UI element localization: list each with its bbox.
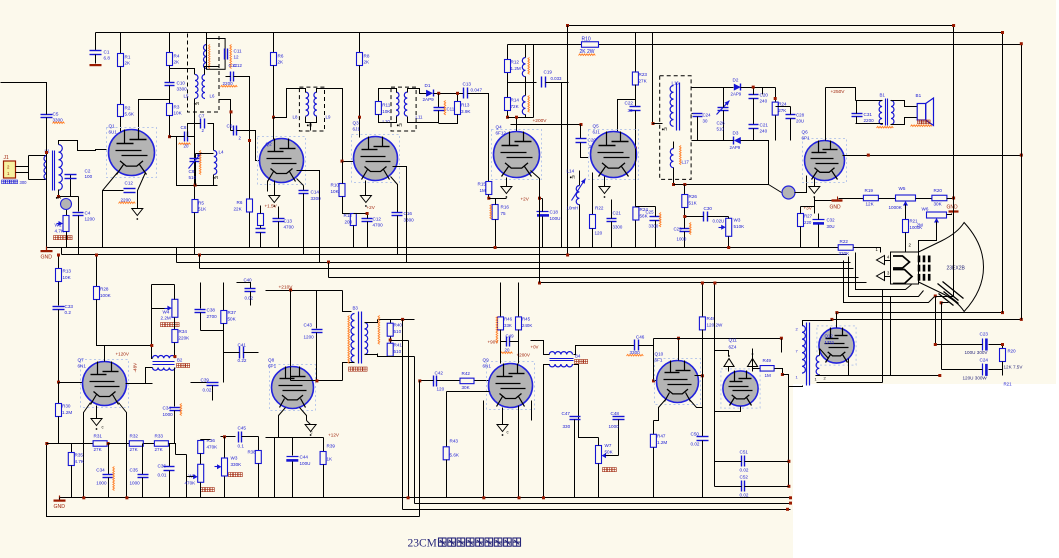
svg-text:Q12: Q12 — [825, 334, 834, 339]
svg-text:72K: 72K — [511, 104, 520, 109]
svg-text:B3: B3 — [353, 306, 359, 311]
svg-text:2.2M: 2.2M — [161, 316, 171, 321]
tube Q4 6F12 — [492, 130, 542, 180]
wire Q9 right leg — [518, 406, 520, 498]
wire C20 junction — [753, 88, 755, 95]
junction Q7 grid — [57, 381, 60, 384]
svg-text:R2: R2 — [125, 106, 131, 111]
svg-text:3300: 3300 — [177, 87, 188, 92]
svg-text:510: 510 — [189, 175, 197, 180]
svg-text:2700: 2700 — [207, 314, 218, 319]
wire box feed — [653, 123, 663, 125]
svg-text:C19: C19 — [544, 70, 553, 75]
svg-text:100U: 100U — [300, 461, 311, 466]
tube Q5 6J1 — [589, 130, 639, 180]
resistor R31 27K — [93, 441, 107, 447]
ground arrow Q5 cathode — [599, 187, 610, 194]
deflection yoke strokes — [938, 284, 959, 301]
svg-text:0.02: 0.02 — [691, 442, 700, 447]
svg-text:1K: 1K — [327, 457, 334, 462]
svg-text:●R: ●R — [397, 123, 403, 128]
wire Q10 right — [695, 375, 703, 377]
resistor R20b bleeder — [1000, 349, 1006, 362]
svg-text:C12: C12 — [373, 217, 382, 222]
capacitor C44 100U — [292, 438, 294, 456]
resistor R21 1000K — [905, 205, 907, 220]
svg-text:L17: L17 — [682, 160, 690, 165]
svg-text:0.22: 0.22 — [238, 358, 247, 363]
svg-text:0.02: 0.02 — [203, 388, 212, 393]
svg-text:GND: GND — [54, 504, 66, 510]
svg-text:6F1: 6F1 — [655, 358, 663, 363]
svg-text:L11: L11 — [416, 115, 424, 120]
svg-text:6Z4: 6Z4 — [729, 345, 737, 350]
svg-text:C21: C21 — [613, 211, 622, 216]
svg-text:R4: R4 — [174, 54, 180, 59]
wire R6 line down — [249, 141, 251, 199]
svg-text:C28: C28 — [796, 113, 805, 118]
capacitor C36 0.01 — [169, 444, 171, 467]
wire L11 to D1 — [408, 89, 427, 94]
svg-text:C32: C32 — [827, 218, 836, 223]
wire mid bus L4 — [198, 254, 201, 257]
svg-text:C49: C49 — [506, 334, 515, 339]
wire R49 out — [783, 375, 789, 387]
svg-text:C51: C51 — [740, 450, 749, 455]
wire Q1 cathode right leg — [138, 173, 146, 209]
wavy marks B3 — [378, 316, 380, 345]
wire Q8 plate row — [291, 380, 343, 382]
potentiometer W1 — [66, 210, 68, 216]
svg-text:C2: C2 — [85, 169, 91, 174]
capacitor C32 30U — [813, 219, 825, 221]
svg-text:C44: C44 — [300, 455, 309, 460]
potentiometer W3 510K — [726, 218, 732, 236]
diode D1 2AP9 — [426, 90, 433, 97]
svg-text:1.2M: 1.2M — [62, 410, 72, 415]
wire Q6 plate up — [825, 88, 827, 141]
wire top of R36 — [201, 439, 211, 441]
svg-text:330: 330 — [563, 424, 571, 429]
wire Q4 grid down — [516, 118, 518, 132]
wire flyback line y319 — [832, 319, 1022, 321]
svg-text:10mH: 10mH — [567, 206, 579, 211]
svg-text:0.033: 0.033 — [551, 76, 563, 81]
potentiometer W3b 330K — [222, 458, 228, 476]
tube Q11 6Z4 — [721, 369, 760, 408]
capacitor C11 12 — [224, 49, 226, 60]
resistor R6 22K — [247, 199, 253, 212]
svg-text:W1: W1 — [55, 223, 62, 228]
wire Q7 grid row right — [126, 383, 153, 385]
svg-text:1.2M: 1.2M — [657, 440, 667, 445]
svg-text:R43: R43 — [450, 439, 459, 444]
inductor L9 — [314, 92, 317, 116]
svg-text:W3: W3 — [231, 456, 238, 461]
resistor R11 10K — [375, 102, 381, 115]
capacitor C15 cathode Q2 — [256, 228, 266, 230]
svg-text:330K: 330K — [231, 462, 243, 467]
wire V4 R43 line — [702, 283, 704, 317]
svg-text:2AP9: 2AP9 — [731, 92, 742, 97]
svg-text:R13: R13 — [461, 103, 470, 108]
svg-text:330K: 330K — [839, 251, 851, 256]
wire V10 — [561, 83, 563, 248]
resistor R40 510 — [390, 320, 392, 324]
svg-text:27K: 27K — [94, 447, 103, 452]
svg-text:C11: C11 — [234, 49, 243, 54]
wire T1 secondary bottom — [59, 190, 79, 197]
svg-text:20: 20 — [184, 144, 189, 149]
inductor L13 — [522, 96, 525, 115]
svg-text:+12V: +12V — [328, 433, 340, 438]
svg-text:Q2: Q2 — [266, 142, 273, 147]
svg-text:10K: 10K — [331, 189, 340, 194]
svg-text:5.6K: 5.6K — [125, 112, 135, 117]
resistor R27 220 — [798, 214, 804, 227]
svg-text:●R: ●R — [56, 195, 62, 200]
resistor R3 10K — [169, 86, 171, 104]
svg-text:0.02: 0.02 — [740, 493, 749, 498]
capacitor C6 2 coupling — [233, 126, 235, 136]
wire C45 right — [258, 437, 260, 451]
ground GND1 red — [41, 250, 53, 252]
svg-text:L8: L8 — [293, 115, 298, 120]
svg-text:30K: 30K — [462, 385, 471, 390]
capacitor C34 1000 — [174, 383, 176, 407]
wire Q7 cathode legs — [84, 403, 91, 498]
svg-text:D1: D1 — [425, 83, 431, 88]
wire Q2 cathode legs — [267, 181, 269, 192]
svg-text:C52: C52 — [740, 475, 749, 480]
title hanzi blocks — [439, 538, 447, 546]
svg-text:B1: B1 — [916, 93, 922, 98]
capacitor C13 4700 Q2 cathode — [273, 218, 285, 220]
svg-text:300: 300 — [20, 180, 28, 185]
wire V6 top segment — [953, 26, 955, 199]
wire Q2 region cathode net — [260, 206, 262, 214]
svg-text:W7: W7 — [605, 443, 612, 448]
sound IF transformer dashed box — [660, 76, 691, 180]
resistor R30 1.2M — [58, 383, 60, 404]
wire Q12 top to boost — [836, 313, 838, 328]
variable capacitor C26 510 — [718, 107, 729, 109]
svg-text:3.9K: 3.9K — [461, 109, 471, 114]
connector J1 antenna input — [4, 161, 16, 178]
resistor R47 1.2M — [653, 421, 655, 435]
wire W3b net — [221, 436, 236, 438]
wire B4 right top — [574, 346, 635, 355]
wire brightness row — [839, 198, 864, 200]
svg-text:-48V: -48V — [133, 362, 138, 373]
capacitor C29 1000 — [680, 228, 691, 230]
svg-text:R20: R20 — [1008, 349, 1017, 354]
resistor R5 51K — [192, 200, 198, 213]
svg-text:1200: 1200 — [304, 335, 315, 340]
svg-text:2K: 2K — [278, 60, 285, 65]
potentiometer W6 contrast — [927, 212, 947, 218]
resistor R12c 1.2M — [505, 60, 511, 73]
svg-text:200: 200 — [345, 220, 353, 225]
svg-text:R42: R42 — [462, 371, 471, 376]
inductor L4 — [213, 130, 215, 151]
ground arrow Q4 cathode — [501, 187, 512, 194]
svg-text:Q1: Q1 — [109, 124, 116, 129]
svg-text:6N1: 6N1 — [483, 364, 492, 369]
resistor R4 2K — [169, 33, 171, 53]
wire tank left — [177, 137, 218, 186]
wire top rail H3 — [508, 44, 582, 46]
resistor R33 27K — [154, 441, 168, 447]
tube Q12 1Z11 — [817, 326, 856, 365]
wire Q1 cathode left leg — [103, 173, 118, 248]
resistor R39 1K — [323, 438, 325, 452]
wire bottom rail BB1 — [60, 497, 791, 499]
svg-text:1M: 1M — [765, 373, 772, 378]
wire deflection feeds — [402, 320, 404, 510]
resistor R24b 56K — [635, 149, 637, 207]
dashed box mixer coil — [188, 33, 220, 113]
svg-text:c: c — [507, 430, 509, 435]
ground arrow Q8 cathode — [305, 425, 316, 432]
svg-text:R38: R38 — [248, 450, 257, 455]
svg-text:C48: C48 — [611, 411, 620, 416]
wire Q2 right leg down — [297, 171, 320, 263]
capacitor C24 30 — [693, 113, 703, 115]
svg-text:3300: 3300 — [613, 225, 623, 230]
wire D1 to C13 — [434, 93, 464, 95]
svg-text:R30: R30 — [62, 404, 71, 409]
svg-text:C9: C9 — [189, 169, 195, 174]
potentiometer W7 50K — [596, 446, 602, 464]
wire T1 secondary top to Q1 grid — [59, 141, 107, 151]
wire sync network frame — [507, 45, 509, 118]
wire Q5 grid link — [618, 100, 636, 132]
svg-text:C42: C42 — [435, 371, 444, 376]
svg-text:6P1: 6P1 — [268, 364, 277, 369]
svg-text:C6: C6 — [227, 124, 233, 129]
svg-text:Q4: Q4 — [496, 125, 503, 130]
svg-text:100K: 100K — [100, 293, 112, 298]
svg-text:C41: C41 — [238, 343, 247, 348]
wire Q6 screen to boost — [843, 155, 1022, 157]
resistor R19 12K — [863, 195, 878, 201]
resistor R46 33K — [500, 283, 502, 317]
wire detector long — [674, 184, 769, 186]
svg-text:D3: D3 — [733, 131, 739, 136]
wire Q3 right leg — [393, 167, 407, 263]
capacitor C39 0.02 — [191, 382, 213, 384]
svg-text:3300: 3300 — [649, 224, 659, 229]
CRT kinescope 23EX2B — [919, 223, 984, 312]
wire detector up link — [742, 141, 769, 185]
svg-text:C11: C11 — [447, 107, 455, 112]
resistor R20 30K — [932, 195, 947, 201]
wire L7 top to rail — [206, 33, 208, 39]
svg-text:R10: R10 — [582, 37, 591, 43]
svg-text:100: 100 — [85, 174, 93, 179]
svg-text:L14: L14 — [567, 169, 575, 174]
svg-text:51K: 51K — [689, 201, 698, 206]
wire Q7 grid — [59, 382, 84, 384]
wire H1 left end junction — [566, 24, 569, 27]
svg-text:R37: R37 — [228, 310, 237, 315]
potentiometer W2 470K — [198, 464, 204, 482]
diode arrows Q11 — [724, 359, 734, 367]
wire +200V feed — [511, 124, 581, 126]
wire B3 primary top — [343, 291, 352, 312]
svg-text:C14: C14 — [311, 190, 320, 195]
svg-text:30K: 30K — [934, 202, 943, 207]
capacitor C23 100U 300V — [982, 339, 984, 351]
svg-text:C26: C26 — [717, 121, 726, 126]
svg-text:C39: C39 — [201, 378, 210, 383]
svg-text:GND: GND — [830, 205, 842, 211]
wire bottom rail BB3 — [403, 509, 791, 511]
svg-text:0.02U: 0.02U — [713, 219, 725, 224]
svg-text:C8: C8 — [181, 125, 187, 130]
svg-text:L10: L10 — [383, 119, 391, 124]
svg-text:GND: GND — [41, 255, 53, 261]
svg-text:0.047: 0.047 — [471, 88, 483, 93]
svg-text:●R: ●R — [570, 175, 576, 180]
svg-text:220K: 220K — [179, 336, 191, 341]
wire V7 long — [1002, 33, 1004, 313]
svg-text:C22: C22 — [625, 101, 634, 106]
wire L10 top — [379, 89, 397, 102]
svg-text:23CM: 23CM — [408, 538, 437, 550]
svg-text:R20: R20 — [934, 188, 943, 193]
resistor R36 470K — [200, 440, 202, 441]
svg-text:R46: R46 — [504, 317, 513, 322]
wire B2 secondary — [127, 368, 153, 384]
svg-text:L5: L5 — [184, 94, 189, 99]
svg-text:C45: C45 — [238, 426, 247, 431]
wire nest to damper 1 — [882, 290, 884, 383]
wire CRT grid feed R22 330K — [838, 245, 853, 251]
capacitor C16 3300 — [391, 177, 398, 213]
resistor R49 1M — [753, 368, 761, 370]
potentiometer W5 1000K brightness — [896, 195, 916, 201]
tube Q8 6P1 — [270, 365, 316, 411]
resistor R22b 120 — [592, 173, 594, 215]
CRT heater arrows — [877, 256, 885, 265]
capacitor C49 20 — [506, 337, 508, 347]
svg-text:R14: R14 — [511, 98, 520, 103]
svg-text:2AP9: 2AP9 — [730, 145, 741, 150]
inductor L10 — [396, 92, 399, 116]
svg-text:3300: 3300 — [404, 218, 415, 223]
wire pin nest 1 — [856, 253, 912, 290]
svg-text:C4: C4 — [85, 211, 91, 216]
svg-text:W4: W4 — [163, 310, 170, 315]
svg-text:510: 510 — [717, 127, 725, 132]
resistor R23 27K — [632, 72, 638, 85]
wire flyback bottom to rails — [789, 386, 803, 387]
svg-text:50K: 50K — [228, 317, 237, 322]
tube Q1 6U1 — [107, 128, 157, 178]
svg-text:33K: 33K — [504, 323, 512, 328]
svg-text:30: 30 — [628, 108, 634, 113]
wire detector bottom — [692, 140, 734, 142]
svg-text:C12: C12 — [125, 181, 134, 186]
svg-text:c: c — [102, 425, 104, 430]
capacitor C31 2200 — [852, 113, 863, 115]
svg-text:C16: C16 — [404, 211, 413, 216]
svg-text:75: 75 — [501, 211, 507, 216]
ground arrow Q1 cathode — [132, 209, 143, 216]
svg-text:0.02: 0.02 — [740, 468, 749, 473]
capacitor C35 1000 — [142, 444, 144, 475]
capacitor C7 2 — [208, 124, 214, 130]
wire L8 L9 bottoms — [306, 117, 317, 123]
diode D3 2AP9 — [734, 137, 741, 144]
wire damper bottom — [816, 375, 940, 377]
resistor R37 50K — [223, 283, 225, 311]
wire left antenna feed — [1, 83, 47, 108]
wire Q1 plate to R3 line — [139, 100, 170, 133]
svg-text:L6: L6 — [210, 94, 215, 99]
wire mid bus L3 — [176, 248, 178, 263]
inductor L7 — [204, 45, 207, 69]
wire osc to Q2 grid — [219, 100, 231, 131]
svg-text:R39: R39 — [327, 444, 336, 449]
schematic sheet background — [0, 0, 1056, 384]
svg-text:0.02: 0.02 — [245, 296, 254, 301]
IF transformer T2 dashed box — [299, 87, 324, 131]
wire bottom rail BB2 — [415, 503, 791, 505]
wire C23 row — [936, 344, 983, 346]
svg-text:C12: C12 — [229, 63, 238, 68]
resistor R34 220K — [174, 318, 176, 330]
flyback transformer T high voltage — [802, 325, 805, 373]
svg-text:27K: 27K — [130, 447, 139, 452]
resistor R42 30K — [460, 378, 474, 384]
capacitor C12b 4700 — [362, 218, 373, 220]
svg-text:R35: R35 — [75, 453, 84, 458]
capacitor C33 0.27 — [58, 282, 60, 306]
diode D2 2AP9 — [734, 84, 741, 91]
svg-text:C20: C20 — [760, 93, 769, 98]
resistor R26 51K — [684, 185, 686, 195]
svg-text:50K: 50K — [605, 450, 614, 455]
resistor R1 2K — [120, 33, 122, 54]
svg-text:●R: ●R — [307, 123, 313, 128]
junction transformer — [173, 355, 176, 358]
wire Q10 plate — [678, 339, 680, 361]
svg-text:C13: C13 — [463, 82, 472, 87]
wire deflection feed 4 — [419, 381, 421, 517]
svg-text:C34: C34 — [96, 468, 105, 473]
svg-text:10K: 10K — [174, 111, 183, 116]
svg-text:+250V: +250V — [831, 89, 846, 95]
wire Q4 right leg — [531, 171, 540, 283]
svg-text:C5: C5 — [53, 112, 59, 117]
svg-text:0.01: 0.01 — [158, 473, 167, 478]
capacitor C14 3300 — [297, 179, 304, 186]
capacitor C14b at D1 — [438, 94, 440, 108]
svg-text:6J1: 6J1 — [353, 127, 361, 132]
wire Q5 plate — [632, 148, 636, 150]
svg-text:510: 510 — [394, 349, 402, 354]
wire Q10 grid — [654, 380, 658, 382]
inductor L5 L6 IF pair — [195, 75, 198, 99]
svg-text:C31: C31 — [864, 112, 873, 117]
resistor R7 right — [258, 214, 264, 226]
svg-text:R33: R33 — [155, 434, 164, 439]
svg-text:W3: W3 — [734, 218, 741, 223]
wire L5 top — [170, 69, 195, 75]
